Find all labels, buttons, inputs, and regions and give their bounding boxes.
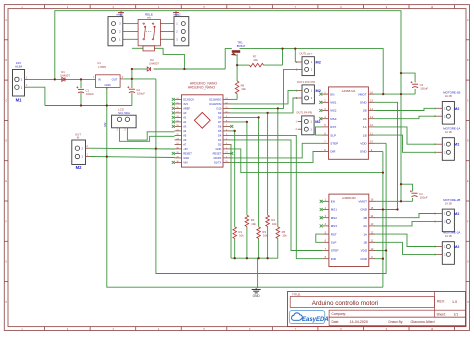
svg-text:1B: 1B [363,133,367,137]
svg-text:M2: M2 [454,212,459,216]
svg-text:+5V: +5V [183,147,188,151]
svg-text:D10: D10 [217,107,222,111]
svg-text:1A 1B: 1A 1B [445,234,452,238]
svg-text:1/1: 1/1 [454,313,459,317]
svg-text:GND: GND [253,294,261,298]
svg-text:ALIM: ALIM [15,65,23,69]
svg-text:VDD: VDD [360,142,367,146]
svg-text:GND: GND [104,83,110,87]
svg-text:AREF: AREF [183,107,190,111]
svg-text:DIR: DIR [330,150,336,154]
svg-text:Giacomo Altieri: Giacomo Altieri [411,320,435,324]
svg-text:D12/MISO: D12/MISO [209,98,221,102]
svg-text:D1/TX: D1/TX [214,161,222,165]
svg-text:10k: 10k [251,222,256,226]
svg-text:Company:: Company: [332,312,347,316]
svg-text:OUT1 PA PB: OUT1 PA PB [296,110,312,114]
svg-text:GND: GND [183,156,189,160]
svg-text:Sheet:: Sheet: [437,313,446,317]
svg-text:100uF: 100uF [86,92,94,96]
svg-text:RST: RST [330,125,336,129]
svg-text:SCL SDA: SCL SDA [118,111,130,115]
svg-text:1A: 1A [363,125,367,129]
svg-text:M2: M2 [103,122,107,126]
svg-text:100uF: 100uF [420,87,428,91]
svg-text:2A: 2A [363,117,367,121]
svg-text:1A: 1A [363,232,367,236]
svg-text:STEP: STEP [330,142,338,146]
svg-text:IN: IN [77,137,80,140]
svg-text:D4: D4 [218,134,222,138]
svg-text:A0: A0 [183,111,187,115]
svg-text:MS1: MS1 [330,101,337,105]
svg-text:10k: 10k [282,233,287,237]
svg-text:10k: 10k [263,233,268,237]
svg-text:M2: M2 [454,143,459,147]
svg-text:A4: A4 [183,129,187,133]
svg-text:D13/SCK: D13/SCK [183,98,194,102]
svg-text:2B: 2B [363,216,367,220]
svg-text:D8: D8 [218,116,222,120]
svg-text:2B: 2B [363,109,367,113]
svg-text:1N4007: 1N4007 [149,61,159,65]
svg-text:RST: RST [331,232,337,236]
svg-text:14-04-2020: 14-04-2020 [350,320,368,324]
svg-text:M1: M1 [16,98,22,103]
svg-text:VMOT: VMOT [358,92,367,96]
svg-text:ARDUINO_NANO: ARDUINO_NANO [188,85,216,89]
svg-text:D11/MOSI: D11/MOSI [209,102,221,106]
svg-text:A2: A2 [183,120,187,124]
svg-text:rele: rele [147,16,152,19]
svg-text:MOTORE-2A: MOTORE-2A [443,231,460,235]
svg-text:10k: 10k [239,233,244,237]
svg-text:10k: 10k [253,58,258,62]
svg-text:G: G [5,262,7,264]
svg-text:EasyEDA: EasyEDA [302,317,329,323]
svg-text:OUT1 pp +: OUT1 pp + [299,52,313,56]
svg-text:100uF: 100uF [420,196,428,200]
svg-text:SLP: SLP [331,241,337,245]
svg-text:A4988-M1: A4988-M1 [342,89,356,93]
svg-text:Date:: Date: [332,320,340,324]
svg-text:1N4007: 1N4007 [60,73,70,77]
svg-text:D9: D9 [218,111,222,115]
svg-text:M2: M2 [316,89,321,93]
svg-text:MS1: MS1 [331,208,338,212]
svg-text:D0/RX: D0/RX [214,156,222,160]
svg-text:M2: M2 [76,165,82,170]
svg-text:TITLE:: TITLE: [292,293,301,297]
svg-text:MS2: MS2 [330,109,337,113]
svg-text:GND: GND [360,257,368,261]
svg-text:1B: 1B [363,241,367,245]
svg-text:G: G [467,262,469,264]
svg-text:VIN: VIN [183,161,187,165]
svg-text:GND: GND [360,150,368,154]
svg-text:Drawn By:: Drawn By: [389,320,404,324]
svg-text:D5: D5 [218,129,222,133]
svg-text:3V3: 3V3 [183,102,188,106]
svg-text:STEP: STEP [331,249,339,253]
svg-text:VDD: VDD [361,249,368,253]
svg-text:100uF: 100uF [137,92,145,96]
svg-text:MS3: MS3 [330,117,337,121]
svg-text:MOTORE-2B: MOTORE-2B [443,198,460,202]
svg-text:REV:: REV: [437,300,445,304]
svg-text:MS2: MS2 [331,216,338,220]
svg-text:A7: A7 [183,143,187,147]
svg-text:Arduino controllo motori: Arduino controllo motori [312,300,379,307]
svg-text:M2: M2 [454,245,459,249]
svg-text:MS3: MS3 [331,224,338,228]
svg-text:10k: 10k [272,222,277,226]
svg-text:RESET: RESET [183,152,192,156]
svg-text:L7805: L7805 [98,65,106,69]
svg-text:EN: EN [331,200,335,204]
svg-text:A4988-M2: A4988-M2 [342,196,356,200]
svg-text:A6: A6 [183,138,187,142]
svg-text:A5: A5 [183,134,187,138]
svg-text:DIR: DIR [331,257,337,261]
svg-text:D6: D6 [218,125,222,129]
svg-text:D7: D7 [218,120,222,124]
svg-text:MOTORE-1B: MOTORE-1B [443,90,460,94]
svg-text:M2: M2 [316,60,321,64]
svg-text:D2: D2 [218,143,222,147]
svg-text:2A 2B: 2A 2B [445,94,452,98]
svg-text:2A: 2A [363,224,367,228]
svg-text:RESET: RESET [213,152,222,156]
svg-text:1A 1B: 1A 1B [445,130,452,134]
svg-text:OUT1 PCO PD: OUT1 PCO PD [297,80,315,84]
svg-text:GND: GND [360,208,368,212]
svg-text:EN: EN [330,92,334,96]
svg-text:IN: IN [98,77,101,81]
svg-text:GND: GND [216,147,222,151]
svg-text:10k: 10k [241,87,246,91]
svg-text:SLP: SLP [330,133,336,137]
svg-text:VMOT: VMOT [358,200,367,204]
svg-text:A1: A1 [183,116,187,120]
svg-text:OUT: OUT [112,77,118,81]
svg-text:2A 2B: 2A 2B [445,202,452,206]
svg-text:BC547: BC547 [237,44,246,48]
svg-text:M2: M2 [454,107,459,111]
svg-text:A3: A3 [183,125,187,129]
svg-text:M2: M2 [315,120,320,124]
svg-text:MOTORE-1A: MOTORE-1A [443,127,460,131]
svg-text:D3: D3 [218,138,222,142]
svg-text:GND: GND [360,101,368,105]
svg-text:1.0: 1.0 [452,300,457,304]
